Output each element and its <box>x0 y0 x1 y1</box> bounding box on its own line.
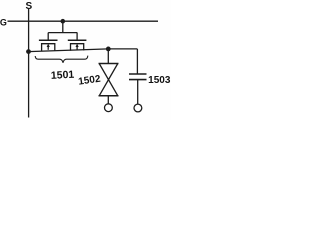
node: junction dot on G line <box>61 19 66 24</box>
diode 1502 bidirectional <box>99 49 119 104</box>
svg-text:1502: 1502 <box>78 74 102 88</box>
wire: gate top rail joining both TFT gates <box>48 32 77 34</box>
brace under 1501 pair <box>35 56 88 63</box>
node: junction dot above diode 1502 <box>106 47 111 52</box>
node: junction dot on S line <box>26 49 31 54</box>
transistor 1501 left TFT <box>39 33 58 52</box>
terminal circle below 1502 <box>105 104 113 112</box>
capacitor 1503 <box>129 49 147 104</box>
wire: S source line vertical <box>28 9 30 118</box>
wire: G gate bus horizontal <box>8 20 159 22</box>
transistor 1501 right TFT <box>68 33 87 51</box>
wire: gate stub down from G junction <box>62 21 64 32</box>
terminal circle below 1503 <box>134 104 142 112</box>
svg-text:G: G <box>0 17 7 27</box>
wire: bottom rail from S junction to capacitor corner <box>29 49 138 52</box>
svg-text:1501: 1501 <box>51 69 75 82</box>
svg-text:1503: 1503 <box>148 75 171 86</box>
